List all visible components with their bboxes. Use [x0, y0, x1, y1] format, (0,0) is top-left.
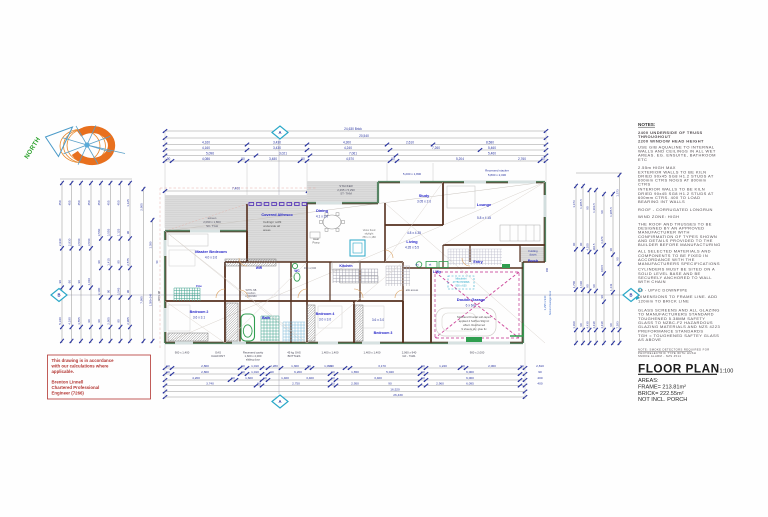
svg-text:3,430: 3,430 [273, 140, 281, 144]
svg-text:Master Bedroom: Master Bedroom [195, 249, 227, 254]
svg-text:5,200 x 1,800: 5,200 x 1,800 [403, 172, 422, 176]
svg-text:AREAS:: AREAS: [638, 378, 659, 384]
svg-text:WIND ZONE: HIGH: WIND ZONE: HIGH [638, 214, 679, 219]
svg-text:6,000: 6,000 [466, 370, 474, 374]
svg-text:Entry: Entry [473, 260, 482, 264]
svg-text:2200 WINDOW HEAD HEIGHT: 2200 WINDOW HEAD HEIGHT [638, 138, 704, 143]
svg-text:90: 90 [307, 364, 311, 368]
svg-text:3,400: 3,400 [374, 376, 382, 380]
svg-text:applicable.: applicable. [52, 369, 74, 374]
svg-text:ROOF - CORRUGATED LONGRUN: ROOF - CORRUGATED LONGRUN [638, 207, 713, 212]
svg-text:Kitchen: Kitchen [339, 264, 352, 268]
svg-text:90: 90 [331, 381, 335, 385]
svg-text:3.6 x 3.0: 3.6 x 3.0 [372, 318, 384, 322]
svg-text:1,010: 1,010 [251, 364, 259, 368]
svg-text:90: 90 [116, 260, 120, 264]
svg-text:400: 400 [537, 381, 542, 385]
svg-text:Recessed stacker: Recessed stacker [485, 169, 509, 173]
svg-text:5,340: 5,340 [58, 317, 62, 325]
svg-text:2,905: 2,905 [139, 203, 143, 211]
svg-text:780 x 1,180: 780 x 1,180 [362, 235, 376, 239]
svg-text:2,760: 2,760 [518, 157, 526, 161]
svg-text:90: 90 [166, 364, 170, 368]
svg-text:26,430: 26,430 [393, 393, 403, 397]
svg-text:This drawing is in accordance: This drawing is in accordance [52, 358, 115, 363]
svg-text:90: 90 [585, 284, 589, 288]
svg-text:Velux fixed: Velux fixed [363, 228, 376, 232]
svg-text:110.5: 110.5 [592, 243, 596, 250]
svg-text:90: 90 [609, 248, 613, 252]
svg-text:5,040: 5,040 [386, 370, 394, 374]
svg-text:MANUFACTURERS SPECIFICATIONS: MANUFACTURERS SPECIFICATIONS [638, 261, 720, 266]
svg-text:20,540: 20,540 [359, 134, 369, 138]
svg-text:120mm TO BRICK LINE: 120mm TO BRICK LINE [638, 298, 689, 303]
svg-text:90: 90 [166, 370, 170, 374]
svg-text:BOTTLES: BOTTLES [288, 354, 301, 358]
svg-text:450: 450 [77, 200, 81, 205]
svg-text:2,060: 2,060 [488, 364, 496, 368]
svg-text:90: 90 [241, 157, 245, 161]
svg-text:Pump: Pump [312, 241, 320, 245]
svg-text:90: 90 [167, 157, 171, 161]
svg-text:1,300: 1,300 [291, 364, 299, 368]
svg-text:4.35 x 5.5: 4.35 x 5.5 [405, 246, 419, 250]
svg-text:90: 90 [585, 206, 589, 210]
svg-text:with our calculations where: with our calculations where [51, 363, 110, 368]
svg-text:Bath: Bath [262, 316, 270, 320]
svg-text:90: 90 [421, 376, 425, 380]
svg-text:24,630 Brick: 24,630 Brick [344, 127, 362, 131]
svg-text:90: 90 [579, 242, 583, 246]
svg-text:L'Wy: L'Wy [433, 270, 441, 274]
svg-text:100.5: 100.5 [600, 264, 604, 272]
svg-text:4.8 x 4.35: 4.8 x 4.35 [407, 231, 421, 235]
svg-text:6 x 6m²: 6 x 6m² [466, 304, 477, 308]
svg-text:2,800: 2,800 [201, 364, 209, 368]
svg-text:1,373: 1,373 [615, 189, 619, 197]
svg-text:WIR: WIR [256, 266, 263, 270]
svg-text:90: 90 [263, 376, 267, 380]
svg-text:BRICK= 222.55m²: BRICK= 222.55m² [638, 391, 684, 397]
svg-text:sliding door: sliding door [246, 358, 260, 362]
svg-text:4,570: 4,570 [346, 157, 354, 161]
svg-text:BEARING INT WALLS: BEARING INT WALLS [638, 199, 685, 204]
svg-text:2,610: 2,610 [406, 140, 414, 144]
svg-text:5,460: 5,460 [488, 146, 496, 150]
svg-text:Bedroom 3: Bedroom 3 [374, 331, 393, 335]
svg-text:4,200: 4,200 [192, 376, 200, 380]
svg-text:450: 450 [116, 200, 120, 205]
svg-text:3,555: 3,555 [77, 317, 81, 325]
svg-text:940 x 2,040: 940 x 2,040 [304, 268, 317, 270]
svg-text:90: 90 [301, 157, 305, 161]
svg-text:SC- TGH: SC- TGH [206, 224, 218, 228]
svg-text:90: 90 [331, 376, 335, 380]
svg-text:4,300: 4,300 [343, 140, 351, 144]
svg-text:skylight: skylight [365, 232, 374, 236]
svg-text:WITH CHAIN: WITH CHAIN [638, 279, 666, 284]
svg-text:Double Garage: Double Garage [457, 297, 486, 302]
svg-text:4,190: 4,190 [67, 317, 71, 325]
svg-text:90: 90 [579, 323, 583, 327]
svg-text:90: 90 [97, 260, 101, 264]
svg-text:1,390: 1,390 [148, 241, 152, 248]
svg-text:1,385.5: 1,385.5 [579, 199, 583, 209]
svg-text:90: 90 [330, 364, 334, 368]
svg-text:NOTES:: NOTES: [638, 122, 656, 127]
svg-text:4,630: 4,630 [579, 281, 583, 289]
svg-text:Bedroom 2: Bedroom 2 [190, 310, 209, 314]
svg-text:4.1 x 3.0: 4.1 x 3.0 [316, 215, 328, 219]
svg-text:Dining: Dining [316, 209, 328, 213]
svg-text:4,240: 4,240 [344, 146, 352, 150]
svg-text:1,010: 1,010 [251, 370, 259, 374]
svg-text:ETC: ETC [638, 157, 647, 162]
svg-text:90: 90 [257, 381, 261, 385]
svg-text:CALIFONT: CALIFONT [211, 354, 225, 358]
svg-text:1,400 x 1,400: 1,400 x 1,400 [322, 351, 339, 355]
svg-text:3,170: 3,170 [378, 364, 386, 368]
svg-text:Lounge: Lounge [477, 202, 492, 207]
svg-text:90: 90 [592, 284, 596, 288]
svg-text:7,260: 7,260 [432, 146, 440, 150]
svg-text:90: 90 [538, 370, 542, 374]
svg-text:90: 90 [241, 364, 245, 368]
svg-text:900 x 630: 900 x 630 [456, 284, 468, 287]
svg-text:90: 90 [241, 370, 245, 374]
svg-text:3,470: 3,470 [600, 236, 604, 244]
svg-text:4,438: 4,438 [592, 321, 596, 329]
svg-text:1,443: 1,443 [609, 283, 613, 291]
svg-text:450: 450 [87, 200, 91, 205]
svg-text:1,295 x 930: 1,295 x 930 [543, 295, 547, 310]
svg-text:90: 90 [388, 381, 392, 385]
svg-text:1,380+140: 1,380+140 [148, 293, 152, 306]
svg-text:90: 90 [231, 376, 235, 380]
svg-text:6,000: 6,000 [466, 376, 474, 380]
svg-text:SMOKE ALARM - NZS 4514: SMOKE ALARM - NZS 4514 [638, 354, 681, 358]
svg-text:90: 90 [541, 157, 545, 161]
svg-text:3,560: 3,560 [97, 228, 101, 236]
svg-text:3.0 x 3.0: 3.0 x 3.0 [319, 318, 331, 322]
svg-text:90: 90 [97, 319, 101, 323]
svg-text:1,240: 1,240 [439, 364, 447, 368]
svg-text:1:100: 1:100 [720, 369, 734, 375]
svg-text:6,095: 6,095 [466, 381, 474, 385]
svg-text:400: 400 [537, 376, 542, 380]
svg-text:Porch: Porch [528, 259, 538, 263]
svg-text:Covered Alfresco: Covered Alfresco [261, 213, 293, 217]
svg-text:3,430: 3,430 [273, 146, 281, 150]
svg-text:2,905: 2,905 [126, 317, 130, 325]
svg-text:2,400x960: 2,400x960 [245, 295, 257, 298]
svg-text:BUILDER BEFORE MANUFACTURING: BUILDER BEFORE MANUFACTURING [638, 242, 721, 247]
svg-text:1,125: 1,125 [126, 199, 130, 207]
svg-text:A: A [278, 130, 281, 135]
svg-text:Bedroom 4: Bedroom 4 [316, 312, 335, 316]
svg-text:2,930: 2,930 [67, 238, 71, 246]
svg-text:NOT INCL. PORCH: NOT INCL. PORCH [638, 397, 687, 403]
svg-text:90: 90 [391, 157, 395, 161]
svg-text:16,520: 16,520 [390, 387, 400, 391]
svg-text:4,700: 4,700 [572, 281, 576, 289]
svg-text:5,096: 5,096 [206, 151, 214, 155]
svg-text:1,390: 1,390 [572, 321, 576, 329]
svg-text:FRAME= 213.81m²: FRAME= 213.81m² [638, 384, 686, 390]
svg-text:90: 90 [77, 280, 81, 284]
svg-text:3.6 x 3.1: 3.6 x 3.1 [193, 316, 205, 320]
svg-text:455: 455 [106, 200, 110, 205]
svg-text:3,740: 3,740 [206, 381, 214, 385]
svg-text:90: 90 [421, 364, 425, 368]
svg-text:doors: doors [530, 253, 538, 257]
svg-text:Study: Study [419, 194, 430, 198]
svg-text:B: B [57, 293, 60, 298]
svg-text:2,905: 2,905 [106, 317, 110, 325]
svg-text:AS ABOVE: AS ABOVE [638, 337, 661, 342]
svg-text:Living: Living [406, 240, 418, 244]
svg-text:1,400: 1,400 [281, 376, 289, 380]
svg-text:Engineer (7266): Engineer (7266) [52, 390, 85, 395]
svg-text:Heat: Heat [313, 237, 319, 241]
svg-text:90: 90 [67, 280, 71, 284]
svg-text:450: 450 [58, 200, 62, 205]
svg-text:4,100: 4,100 [585, 243, 589, 251]
svg-text:4,438: 4,438 [600, 321, 604, 329]
svg-text:ST- THM: ST- THM [340, 192, 352, 196]
svg-text:455: 455 [67, 200, 71, 205]
svg-text:4,160: 4,160 [202, 146, 210, 150]
svg-text:3,545: 3,545 [116, 287, 120, 295]
svg-text:90: 90 [421, 370, 425, 374]
svg-text:450: 450 [97, 200, 101, 205]
svg-text:7,985: 7,985 [139, 296, 143, 304]
svg-text:3,100: 3,100 [97, 287, 101, 295]
svg-text:Fire: Fire [196, 284, 202, 288]
svg-text:8,580: 8,580 [486, 140, 494, 144]
svg-text:B: B [629, 293, 632, 298]
svg-text:4,160: 4,160 [202, 140, 210, 144]
svg-text:5,800 x 2,030: 5,800 x 2,030 [488, 173, 507, 177]
svg-text:4.0 x 3.6: 4.0 x 3.6 [205, 256, 217, 260]
svg-text:AREAS. EG. ENSUITE, BATHROOM: AREAS. EG. ENSUITE, BATHROOM [638, 153, 716, 158]
svg-text:1,600: 1,600 [245, 376, 253, 380]
svg-text:2,280: 2,280 [270, 364, 278, 368]
svg-text:3,560: 3,560 [87, 238, 91, 246]
svg-text:WHTL NB: WHTL NB [159, 290, 161, 301]
svg-text:90: 90 [270, 370, 274, 374]
svg-text:3,021: 3,021 [279, 151, 287, 155]
svg-text:A: A [278, 399, 281, 404]
svg-text:attic access: attic access [406, 289, 419, 292]
svg-text:3,480: 3,480 [269, 157, 277, 161]
svg-text:5,460: 5,460 [488, 151, 496, 155]
svg-text:7,061: 7,061 [349, 151, 357, 155]
svg-text:1,393.5: 1,393.5 [592, 203, 596, 213]
svg-text:90: 90 [116, 319, 120, 323]
svg-text:900 x 1,400: 900 x 1,400 [175, 351, 190, 355]
svg-text:90: 90 [106, 290, 110, 294]
svg-text:90: 90 [126, 231, 130, 235]
svg-text:6,200: 6,200 [294, 370, 302, 374]
svg-text:900: 900 [546, 267, 549, 272]
svg-text:Second Garage Door: Second Garage Door [548, 291, 552, 316]
svg-text:2,930: 2,930 [58, 238, 62, 246]
svg-text:80 - UPVC DOWNPIPE: 80 - UPVC DOWNPIPE [638, 288, 688, 293]
svg-text:90: 90 [615, 257, 619, 261]
svg-text:2,950: 2,950 [351, 381, 359, 385]
svg-text:90: 90 [461, 364, 465, 368]
svg-text:90: 90 [87, 319, 91, 323]
svg-text:90: 90 [331, 370, 335, 374]
svg-text:1,010: 1,010 [87, 278, 91, 286]
svg-text:2,800: 2,800 [201, 370, 209, 374]
svg-text:2,575: 2,575 [126, 258, 130, 266]
svg-text:9 sheets ply, glue fix: 9 sheets ply, glue fix [461, 327, 487, 331]
svg-text:2,960: 2,960 [436, 381, 444, 385]
svg-text:4,430: 4,430 [585, 321, 589, 329]
svg-text:1,400 x 1,400: 1,400 x 1,400 [364, 351, 381, 355]
svg-text:90: 90 [600, 210, 604, 214]
svg-text:4,086: 4,086 [202, 157, 210, 161]
svg-text:FLOOR PLAN: FLOOR PLAN [638, 362, 720, 376]
svg-text:90: 90 [520, 364, 524, 368]
svg-text:2,750: 2,750 [292, 381, 300, 385]
svg-text:90: 90 [600, 295, 604, 299]
svg-text:90: 90 [572, 242, 576, 246]
svg-text:1,125: 1,125 [116, 228, 120, 236]
svg-text:1,415: 1,415 [106, 258, 110, 266]
svg-text:Brenton Linnell: Brenton Linnell [52, 380, 84, 385]
svg-text:90: 90 [126, 290, 130, 294]
svg-text:2,810: 2,810 [536, 364, 544, 368]
svg-text:Chartered Professional: Chartered Professional [52, 385, 100, 390]
svg-text:3,560: 3,560 [77, 238, 81, 246]
svg-text:90: 90 [609, 323, 613, 327]
svg-text:1,650: 1,650 [351, 370, 359, 374]
svg-text:3,555: 3,555 [106, 228, 110, 236]
svg-text:GF - 7G61: GF - 7G61 [402, 354, 416, 358]
svg-text:7,283: 7,283 [615, 321, 619, 329]
svg-text:areas: areas [263, 228, 271, 232]
svg-text:5,204: 5,204 [456, 157, 464, 161]
svg-text:900 x 2,000: 900 x 2,000 [470, 351, 485, 355]
svg-text:90: 90 [58, 280, 62, 284]
svg-text:1,385.5: 1,385.5 [609, 207, 613, 217]
svg-text:7,400: 7,400 [232, 186, 240, 190]
svg-text:1,373: 1,373 [572, 200, 576, 208]
svg-text:3,400: 3,400 [306, 376, 314, 380]
